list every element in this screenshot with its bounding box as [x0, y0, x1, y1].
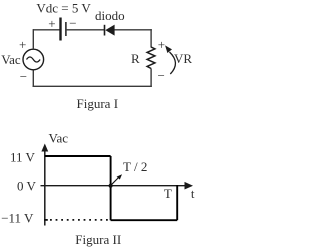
dotted line at -11 V [50, 219, 108, 221]
leader arrow to T/2 label [111, 177, 119, 185]
svg-text:diodo: diodo [95, 8, 125, 23]
svg-text:Vdc = 5 V: Vdc = 5 V [36, 1, 91, 16]
wire left vertical top [32, 29, 34, 49]
svg-text:−11 V: −11 V [1, 211, 34, 226]
wire diode-to-top-right-corner [115, 29, 152, 31]
svg-text:−: − [158, 68, 165, 83]
junction dot at T/2 on axis [109, 184, 113, 188]
svg-text:+: + [19, 37, 26, 52]
svg-text:R: R [131, 51, 140, 66]
svg-text:11 V: 11 V [10, 150, 36, 165]
waveform high segment [45, 155, 111, 157]
AC source sine symbol [27, 57, 41, 62]
AC source Vac circle [23, 49, 44, 70]
y axis Vac [44, 148, 46, 226]
svg-text:−: − [69, 15, 76, 30]
wire bottom [33, 85, 152, 87]
waveform rising edge at T [176, 185, 178, 220]
battery Vdc short plate (-) [65, 22, 67, 36]
svg-text:+: + [48, 16, 55, 31]
wire top-left segment [33, 29, 60, 31]
svg-text:Vac: Vac [1, 52, 21, 67]
wire right vertical bottom [150, 69, 152, 88]
svg-text:Figura II: Figura II [75, 232, 121, 247]
svg-text:0 V: 0 V [17, 179, 37, 194]
wire battery-to-diode [66, 29, 104, 31]
waveform falling edge at T/2 [110, 156, 112, 220]
svg-text:+: + [158, 37, 165, 52]
battery Vdc long plate (+) [59, 18, 61, 41]
VR arc arrow [170, 52, 176, 74]
wire left vertical bottom [32, 70, 34, 87]
waveform low segment [111, 219, 178, 221]
wire right vertical top [150, 29, 152, 47]
svg-text:VR: VR [174, 51, 192, 66]
svg-text:−: − [20, 69, 27, 84]
diode D (cathode bar) [104, 25, 106, 36]
svg-text:T: T [164, 186, 172, 201]
x axis t [41, 185, 188, 187]
resistor R zigzag [147, 47, 155, 69]
svg-text:Vac: Vac [49, 130, 69, 145]
svg-text:t: t [191, 186, 195, 201]
svg-text:Figura I: Figura I [77, 96, 119, 111]
svg-text:T / 2: T / 2 [123, 159, 147, 174]
tick at -11 V on y axis [44, 219, 48, 221]
diode D (triangle) [105, 25, 114, 36]
